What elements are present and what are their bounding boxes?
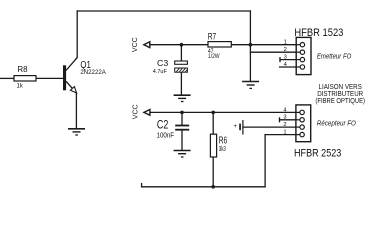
svg-text:3: 3: [284, 55, 287, 61]
svg-text:Emetteur FO: Emetteur FO: [317, 53, 352, 60]
connector U2 HFBR 2523: [294, 105, 341, 159]
wire battery to pin 2 of U2: [243, 126, 296, 128]
resistor R6: [210, 134, 227, 157]
svg-text:1k: 1k: [17, 83, 24, 90]
wire pin 3 stub tick U1: [279, 58, 281, 62]
wire VCC to junction A: [150, 44, 208, 46]
junction dot node B (R7 right): [249, 43, 253, 47]
wire base from left edge to R8: [0, 77, 14, 79]
svg-text:2: 2: [284, 47, 287, 53]
wire pin 2 branch: [250, 51, 296, 53]
wire bottom left stub up: [141, 184, 143, 187]
wire pin 4 stub U1: [280, 66, 297, 68]
wire C2 bottom to ground: [181, 131, 183, 150]
svg-text:(FIBRE OPTIQUE): (FIBRE OPTIQUE): [315, 98, 365, 105]
wire emitter vertical to ground: [75, 93, 77, 128]
wire R6 top: [212, 112, 214, 134]
svg-text:LIAISON VERS: LIAISON VERS: [319, 84, 363, 91]
svg-text:100nF: 100nF: [157, 130, 175, 139]
svg-text:R6: R6: [219, 135, 227, 146]
transistor Q1: [63, 57, 107, 93]
wire junction B down to ground: [249, 45, 251, 81]
resistor R7: [208, 31, 232, 60]
svg-text:1: 1: [283, 130, 286, 136]
wire pin 1 vertical down: [264, 135, 266, 187]
power VCC arrow bottom: [133, 104, 150, 119]
svg-text:R8: R8: [17, 64, 28, 74]
svg-text:HFBR 2523: HFBR 2523: [294, 147, 341, 159]
ground under junction B: [242, 82, 259, 89]
wire bottom horizontal: [142, 186, 266, 188]
wire pin 3 stub tick U2: [279, 118, 281, 122]
wire top right vertical down to junction B: [249, 11, 251, 45]
capacitor C2: [157, 120, 190, 140]
wire pin 3 stub U2: [280, 119, 296, 121]
capacitor C3: [153, 59, 188, 75]
svg-text:DISTRIBUTEUR: DISTRIBUTEUR: [317, 91, 363, 98]
svg-text:1/2W: 1/2W: [208, 53, 220, 60]
svg-text:C3: C3: [157, 59, 169, 68]
svg-text:3k3: 3k3: [219, 146, 226, 153]
svg-text:+: +: [234, 124, 238, 130]
wire pin 3 stub U1: [280, 59, 296, 61]
ground under C3: [174, 95, 191, 101]
svg-text:4.7uF: 4.7uF: [153, 69, 168, 75]
ground under C2: [174, 151, 191, 158]
wire R8 to transistor base: [36, 77, 63, 79]
resistor R8: [14, 64, 36, 90]
junction dot node C (C2 tap): [180, 111, 184, 115]
svg-text:VCC: VCC: [132, 37, 139, 52]
ground under Q1 emitter: [68, 129, 85, 135]
wire C3 top: [180, 45, 182, 61]
connector U1 HFBR 1523: [294, 27, 343, 75]
svg-text:VCC: VCC: [133, 104, 140, 119]
svg-text:2: 2: [283, 122, 286, 128]
wire C2 top: [181, 112, 183, 124]
battery B1: [234, 120, 243, 135]
junction dot node E (R6 bottom): [211, 185, 215, 189]
power VCC arrow top: [132, 37, 150, 52]
junction dot node A (C3 tap): [180, 43, 184, 47]
wire collector vertical: [76, 11, 78, 58]
wire R7 right to pin 1: [231, 44, 296, 46]
wire C3 bottom to ground: [180, 72, 182, 94]
svg-text:2N2222A: 2N2222A: [80, 69, 106, 76]
wire top horizontal collector to junction: [77, 10, 250, 12]
svg-text:R7: R7: [208, 31, 216, 41]
junction dot node D (R6 top): [211, 111, 215, 115]
wire R6 bottom: [212, 157, 214, 187]
wire VCC2 to pin 4 of U2: [150, 111, 296, 113]
svg-text:1: 1: [284, 40, 287, 46]
wire pin 1 of U2: [265, 134, 296, 136]
svg-text:HFBR 1523: HFBR 1523: [294, 27, 343, 39]
svg-text:Récepteur FO: Récepteur FO: [317, 120, 356, 127]
svg-text:3: 3: [283, 115, 286, 121]
